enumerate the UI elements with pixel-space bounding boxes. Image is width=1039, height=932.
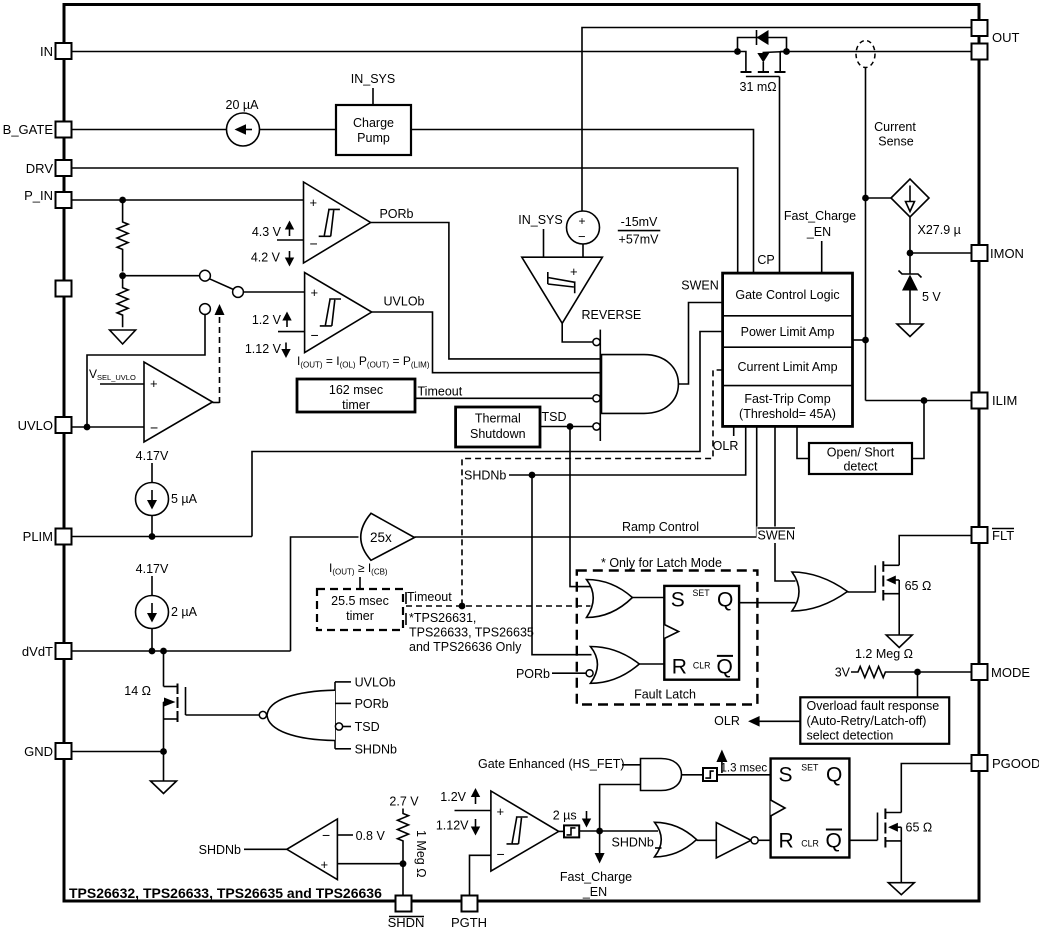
svg-text:1.3 msec: 1.3 msec: [721, 763, 768, 775]
svg-text:Sense: Sense: [878, 135, 913, 149]
svg-text:CP: CP: [757, 253, 774, 267]
label 0.8 V: [337, 834, 353, 836]
pin SHDN (overlined, bottom): [396, 896, 412, 912]
wire reset OR to latch R: [639, 663, 664, 665]
svg-text:Timeout: Timeout: [418, 385, 463, 399]
wire AND output SWEN to GCL: [678, 303, 722, 385]
wire PGTH pin to comparator: [470, 855, 491, 895]
svg-text:+57mV: +57mV: [619, 233, 660, 247]
wire B_GATE: [72, 129, 227, 131]
svg-text:(Threshold= 45A): (Threshold= 45A): [739, 407, 836, 421]
inverter: [697, 823, 771, 859]
OR gate (latch set): [587, 580, 633, 618]
pin MODE: [972, 664, 988, 680]
comparator PORb: [304, 182, 371, 263]
wire SHDNb from GCL: [509, 426, 746, 475]
ground (FLT FET): [886, 635, 912, 648]
svg-text:+: +: [311, 285, 319, 300]
svg-text:25x: 25x: [370, 530, 392, 545]
wire TSD down to fault OR: [570, 427, 592, 587]
OR gate (FLT drive): [792, 572, 848, 611]
wire FET to OUT: [787, 51, 972, 53]
svg-text:Thermal: Thermal: [475, 412, 521, 426]
svg-text:Fast_Charge: Fast_Charge: [784, 209, 856, 223]
wire Open/Short to ILIM: [912, 401, 924, 459]
wire TSD to AND: [540, 426, 593, 428]
svg-text:* Only for Latch Mode: * Only for Latch Mode: [601, 556, 722, 570]
resistor 1 Meg (SHDN): [398, 809, 409, 865]
pin OUT lower: [972, 44, 988, 60]
svg-text:65 Ω: 65 Ω: [905, 579, 932, 593]
svg-text:dVdT: dVdT: [22, 644, 53, 659]
svg-text:CLR: CLR: [801, 839, 819, 849]
current sense diamond X27.9u: [891, 179, 929, 217]
wire SHDN comp output: [244, 848, 287, 850]
pin PLIM: [56, 529, 72, 545]
svg-text:2 µs: 2 µs: [553, 809, 577, 823]
wire PORb output to AND: [371, 223, 601, 359]
charge pump box: [336, 105, 411, 155]
wire set OR to latch S: [632, 597, 664, 599]
timer box 162 msec: [297, 379, 415, 412]
resistor divider lower: [117, 276, 128, 328]
wire OUT sense (top): [582, 28, 972, 212]
dashed fault latch box: [577, 571, 758, 705]
svg-text:R: R: [672, 656, 687, 679]
wire diamond to sense line: [866, 197, 892, 199]
svg-text:and TPS26636 Only: and TPS26636 Only: [409, 640, 522, 654]
svg-text:Charge: Charge: [353, 116, 394, 130]
wire 25x output ramp control: [415, 426, 757, 537]
svg-text:Current: Current: [874, 120, 916, 134]
pin FLT (overlined): [972, 527, 988, 543]
svg-text:P_IN: P_IN: [24, 188, 53, 203]
FLT pulldown FET 65 Ohm: [875, 536, 971, 636]
label SWEN (overlined): [757, 527, 797, 544]
pin GND: [56, 743, 72, 759]
wire junction to OR: [600, 830, 658, 832]
OR gate (latch reset): [590, 647, 639, 684]
wire PGOOD pin to FET: [901, 764, 971, 813]
svg-text:Fault Latch: Fault Latch: [634, 688, 696, 702]
wire DRV to Gate Control Logic: [72, 168, 738, 273]
comparator REVERSE: [522, 257, 603, 323]
svg-text:PGTH: PGTH: [451, 915, 487, 930]
svg-text:-15mV: -15mV: [621, 215, 658, 229]
svg-text:−: −: [322, 827, 330, 843]
svg-text:IN: IN: [40, 44, 53, 59]
svg-text:Overload fault response: Overload fault response: [807, 699, 940, 713]
pin B_GATE: [56, 122, 72, 138]
svg-text:Q: Q: [717, 656, 733, 679]
wire ILIM: [866, 400, 972, 402]
wire REVERSE output to AND bubble: [562, 323, 593, 342]
SR latch (fault): [664, 586, 739, 680]
svg-text:1.2V: 1.2V: [440, 790, 466, 804]
ground (PGOOD FET): [888, 883, 914, 895]
wire MODE: [901, 671, 972, 673]
svg-text:timer: timer: [342, 398, 370, 412]
svg-text:PORb: PORb: [379, 207, 413, 221]
svg-text:Power Limit Amp: Power Limit Amp: [741, 325, 835, 339]
svg-text:+: +: [321, 857, 329, 872]
svg-text:select detection: select detection: [807, 729, 894, 743]
wire timeout to AND: [415, 397, 593, 399]
box overload fault response: [800, 697, 949, 744]
svg-text:Q: Q: [717, 589, 733, 612]
wire SHDNb down to R OR gate: [532, 475, 592, 655]
svg-text:PORb: PORb: [516, 667, 550, 681]
wire diamond to IMON: [909, 217, 911, 253]
svg-text:−: −: [311, 327, 319, 343]
OR gate (PGOOD reset): [655, 822, 697, 857]
svg-text:Current Limit Amp: Current Limit Amp: [737, 360, 837, 374]
pin P_IN: [56, 192, 72, 208]
svg-text:5 V: 5 V: [922, 290, 941, 304]
svg-text:1.2 Meg Ω: 1.2 Meg Ω: [855, 647, 913, 661]
svg-text:4.2 V: 4.2 V: [251, 251, 281, 265]
dVdT discharge FET 14 Ohm: [124, 651, 185, 752]
svg-text:Open/ Short: Open/ Short: [827, 446, 895, 460]
svg-text:_EN: _EN: [806, 225, 831, 239]
PGOOD pulldown FET 65 Ohm: [878, 809, 933, 883]
svg-text:Gate Enhanced (HS_FET): Gate Enhanced (HS_FET): [478, 757, 625, 771]
wire switch pos2 to UVLO net: [87, 314, 205, 427]
svg-text:2.7 V: 2.7 V: [389, 795, 419, 809]
NAND gate (gate pulldown logic): [186, 676, 398, 757]
wire sense down to diamond/ILIM: [865, 68, 867, 401]
wire junction up to AND: [600, 785, 641, 832]
box Open/Short detect: [809, 443, 912, 474]
wire error amp output stub: [213, 402, 220, 404]
block Gate Control Logic: [723, 273, 853, 426]
node divider mid: [119, 272, 126, 279]
pin DRV: [56, 160, 72, 176]
svg-text:FLT: FLT: [992, 528, 1014, 543]
svg-text:SHDNb: SHDNb: [464, 469, 506, 483]
svg-text:CLR: CLR: [693, 661, 711, 671]
svg-text:+: +: [579, 214, 586, 228]
pin IN: [56, 43, 72, 59]
svg-text:_EN: _EN: [582, 885, 607, 899]
svg-text:+: +: [497, 804, 505, 819]
wire latch Qbar to FET gate: [849, 839, 877, 841]
svg-text:Pump: Pump: [357, 131, 390, 145]
svg-text:OLR: OLR: [713, 439, 739, 453]
svg-text:Q: Q: [826, 830, 842, 853]
dashed timeout wire to fault OR: [406, 605, 591, 607]
AND gate (PGOOD set): [641, 759, 682, 791]
svg-text:1.12 V: 1.12 V: [245, 342, 282, 356]
ground (divider): [110, 330, 136, 344]
node IN-FET: [734, 48, 741, 55]
svg-text:S: S: [671, 589, 685, 612]
svg-text:PORb: PORb: [355, 697, 389, 711]
voltage source -15mV/+57mV: [567, 211, 600, 244]
ground (zener): [897, 324, 923, 337]
pin dVdT: [56, 643, 72, 659]
svg-text:Gate Control Logic: Gate Control Logic: [735, 288, 839, 302]
svg-text:0.8 V: 0.8 V: [356, 829, 386, 843]
wire junction down Fast_Charge_EN: [595, 831, 605, 864]
wire IN to pass FET: [72, 51, 738, 53]
switch UVLO select: [200, 270, 244, 314]
svg-text:(Auto-Retry/Latch-off): (Auto-Retry/Latch-off): [807, 714, 927, 728]
svg-text:1 Meg Ω: 1 Meg Ω: [414, 830, 428, 878]
wire switch to UVLOb comparator: [243, 291, 304, 293]
wire Fast-Trip to Open/Short: [797, 426, 809, 458]
svg-text:PGOOD: PGOOD: [992, 756, 1039, 771]
label OLR (GCL output): [733, 426, 735, 436]
comparator PGTH: [491, 791, 559, 871]
svg-text:20 µA: 20 µA: [226, 98, 260, 112]
svg-text:REVERSE: REVERSE: [582, 308, 642, 322]
threshold line 4.3V: [277, 239, 304, 241]
threshold 1.2V: [455, 810, 491, 812]
svg-text:GND: GND: [24, 744, 53, 759]
threshold line 1.2V: [278, 331, 305, 333]
wire UVLO pin to error amp: [72, 426, 145, 428]
pulse symbol 1.3 msec: [682, 768, 771, 781]
svg-text:Shutdown: Shutdown: [470, 427, 526, 441]
pin PGOOD: [972, 755, 988, 771]
svg-text:SHDNb: SHDNb: [612, 836, 654, 850]
svg-text:Fast-Trip Comp: Fast-Trip Comp: [744, 392, 830, 406]
svg-text:timer: timer: [346, 609, 374, 623]
svg-text:B_GATE: B_GATE: [3, 122, 54, 137]
svg-text:*TPS26631,: *TPS26631,: [409, 611, 476, 625]
current source 2uA: [136, 596, 198, 629]
current source 5uA: [136, 483, 198, 516]
svg-text:IN_SYS: IN_SYS: [518, 213, 562, 227]
svg-text:ILIM: ILIM: [992, 393, 1017, 408]
svg-text:OLR: OLR: [714, 714, 740, 728]
svg-text:−: −: [150, 420, 158, 436]
wire SHDN comp + input: [337, 863, 403, 865]
pin OUT upper: [972, 20, 988, 36]
svg-text:IN_SYS: IN_SYS: [351, 72, 395, 86]
ground (GND pin): [151, 781, 177, 794]
svg-text:TSD: TSD: [355, 720, 380, 734]
svg-text:4.3 V: 4.3 V: [252, 225, 282, 239]
svg-text:+: +: [310, 195, 318, 210]
wire PLIM to Power Limit Amp: [252, 332, 723, 537]
zener diode 5V: [899, 253, 942, 324]
wire to SHDN pin: [402, 864, 404, 896]
SR latch (PGOOD): [771, 759, 850, 858]
pin UVLO: [56, 417, 72, 433]
op-amp UVLO error amp: [144, 362, 213, 442]
svg-text:SHDNb: SHDNb: [355, 743, 397, 757]
svg-text:31 mΩ: 31 mΩ: [740, 80, 777, 94]
amplifier 25x: [361, 513, 415, 560]
pulse symbol 2us: [559, 825, 580, 837]
svg-text:SET: SET: [801, 763, 819, 773]
svg-text:1.2 V: 1.2 V: [252, 313, 282, 327]
svg-text:DRV: DRV: [26, 161, 54, 176]
pin IMON: [972, 245, 988, 261]
svg-text:Q: Q: [826, 764, 842, 787]
svg-text:SHDNb: SHDNb: [199, 843, 241, 857]
resistor 1.2 Meg to MODE: [851, 667, 901, 678]
svg-text:TPS26632, TPS26633, TPS26635 a: TPS26632, TPS26633, TPS26635 and TPS2663…: [69, 885, 382, 901]
wire FLT OR to FET gate: [848, 591, 876, 593]
timer box 25.5 msec (dashed): [317, 589, 403, 630]
svg-text:R: R: [779, 830, 794, 853]
pin ILIM: [972, 393, 988, 409]
svg-text:Fast_Charge: Fast_Charge: [560, 870, 632, 884]
svg-text:MODE: MODE: [991, 665, 1030, 680]
svg-text:1.12V: 1.12V: [436, 819, 469, 833]
svg-text:TPS26633, TPS26635: TPS26633, TPS26635: [409, 626, 534, 640]
svg-text:UVLO: UVLO: [18, 418, 53, 433]
svg-text:OUT: OUT: [992, 30, 1020, 45]
wire 2us to junction: [579, 830, 599, 832]
svg-text:SWEN: SWEN: [681, 279, 719, 293]
svg-text:+: +: [570, 264, 578, 279]
svg-text:2 µA: 2 µA: [171, 605, 198, 619]
svg-text:162 msec: 162 msec: [329, 383, 383, 397]
pin PGTH (bottom): [462, 896, 478, 912]
svg-text:25.5 msec: 25.5 msec: [331, 594, 389, 608]
node FET-OUT: [783, 48, 790, 55]
thermal shutdown box: [456, 407, 540, 447]
svg-text:5 µA: 5 µA: [171, 492, 198, 506]
wire GND: [72, 751, 164, 753]
wire dVdT: [72, 650, 291, 652]
svg-text:−: −: [497, 846, 505, 862]
svg-text:Timeout: Timeout: [407, 590, 452, 604]
dashed select arrow: [219, 313, 221, 403]
pass MOSFET 31 mOhm with body diode: [738, 30, 787, 94]
wire FET gate to Gate Control Logic: [779, 77, 781, 274]
wire SWEN to FLT OR: [775, 426, 796, 581]
arrow overload select to OLR: [748, 716, 800, 727]
svg-text:14 Ω: 14 Ω: [124, 684, 151, 698]
svg-text:−: −: [310, 236, 318, 252]
wire divider to switch: [123, 275, 200, 277]
wire latch Q to FLT OR: [739, 602, 795, 604]
svg-text:detect: detect: [843, 460, 878, 474]
wire 20uA to charge pump: [260, 129, 337, 131]
footnote TPS2663x only: [405, 613, 407, 625]
resistor divider upper: [117, 200, 128, 272]
svg-text:4.17V: 4.17V: [136, 562, 169, 576]
svg-text:UVLOb: UVLOb: [355, 676, 396, 690]
svg-text:PLIM: PLIM: [23, 529, 53, 544]
svg-text:UVLOb: UVLOb: [384, 295, 425, 309]
svg-text:IMON: IMON: [990, 246, 1024, 261]
comparator SHDN: [287, 819, 338, 880]
AND gate (gate enable): [593, 330, 679, 441]
svg-text:SWEN: SWEN: [758, 529, 796, 543]
svg-text:X27.9 µ: X27.9 µ: [918, 223, 961, 237]
wire P_IN: [72, 199, 304, 201]
pin unnamed: [56, 281, 72, 297]
wire dVdT to 25x input: [291, 537, 359, 651]
svg-text:3V: 3V: [835, 666, 851, 680]
svg-text:TSD: TSD: [542, 410, 567, 424]
svg-text:S: S: [779, 764, 793, 787]
wire UVLOb output to AND: [372, 312, 601, 373]
svg-text:+: +: [150, 376, 158, 391]
wire charge pump to CP: [411, 130, 754, 274]
current source 20uA: [227, 113, 260, 146]
svg-text:4.17V: 4.17V: [136, 449, 169, 463]
svg-text:Ramp Control: Ramp Control: [622, 520, 699, 534]
svg-text:−: −: [578, 229, 586, 244]
comparator UVLOb: [305, 273, 372, 353]
wire Power Limit Amp to sense line: [853, 339, 866, 341]
wire PLIM: [72, 536, 253, 538]
svg-text:65 Ω: 65 Ω: [906, 821, 933, 835]
current sense loop (dashed ellipse): [856, 41, 875, 68]
svg-text:SET: SET: [693, 588, 711, 598]
dashed OLR auto-retry path: [462, 370, 723, 606]
